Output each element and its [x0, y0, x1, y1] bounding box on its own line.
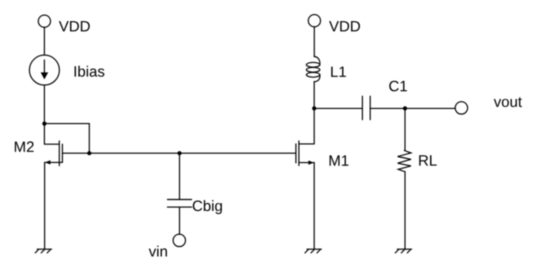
wire node A to M2 gate: [44, 124, 58, 145]
wire down to Cbig: [179, 153, 181, 199]
label Ibias: [75, 66, 105, 77]
label M1: [330, 155, 349, 165]
terminal VDD (left): [38, 15, 50, 27]
inductor L1: [306, 57, 320, 82]
label M2: [15, 141, 34, 151]
label C1: [389, 81, 407, 92]
ground (middle): [305, 249, 321, 253]
wire down to M2 drain: [88, 124, 90, 154]
label RL: [419, 155, 436, 165]
label VDD (left): [59, 21, 90, 31]
wire M2 source to ground: [44, 162, 46, 249]
wire Ibias to node A: [43, 85, 45, 124]
terminal vout: [455, 102, 467, 114]
node A junction dot: [42, 122, 46, 126]
transistor M1: [296, 141, 314, 166]
transistor M2: [45, 141, 90, 166]
node RL junction dot: [403, 106, 407, 110]
wire node to RL: [404, 108, 406, 150]
wire M2 drain to M1 gate: [89, 152, 295, 154]
node Cbig junction dot: [177, 151, 181, 155]
wire VDD2 to L1: [313, 27, 315, 57]
label VDD (right): [329, 21, 360, 31]
label Cbig: [193, 200, 222, 214]
wire M1 drain up to node B: [313, 82, 315, 144]
wire M1 source to ground: [313, 163, 315, 250]
current source Ibias: [29, 55, 59, 85]
node B junction dot: [312, 106, 316, 110]
wire VDD1 to Ibias: [43, 27, 45, 55]
terminal VDD (right): [308, 15, 320, 27]
terminal vin: [173, 234, 185, 246]
resistor RL: [398, 151, 411, 172]
label L1: [331, 67, 346, 77]
label vin: [149, 246, 167, 257]
node M2 drain junction dot: [87, 151, 91, 155]
ground (left): [35, 249, 51, 253]
wire node A right: [44, 123, 89, 125]
ground (right): [395, 249, 411, 253]
capacitor Cbig: [167, 200, 191, 208]
wire Cbig to vin: [179, 207, 181, 234]
label vout: [494, 97, 522, 107]
wire C1 to vout: [370, 107, 455, 109]
wire RL to ground: [404, 172, 406, 250]
capacitor C1: [362, 96, 370, 120]
wire node B to C1: [314, 107, 362, 109]
